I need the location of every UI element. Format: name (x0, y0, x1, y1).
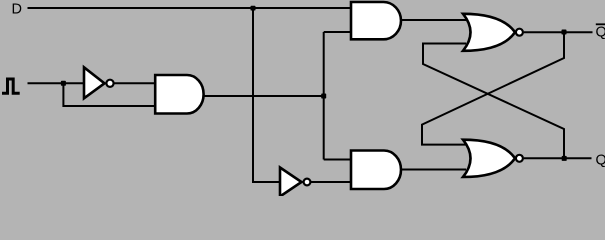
junction Q node (562, 156, 567, 161)
wire bus to AND3 upper input (324, 159, 353, 161)
wire feedback Q to NOR1 lower input (423, 44, 564, 159)
svg-text:Q: Q (596, 25, 605, 41)
inverter U2 (data) (280, 168, 310, 197)
NOR gate NOR1 (top latch) (463, 14, 523, 51)
wire AND1 output to midline (203, 95, 323, 97)
node D label (12, 2, 22, 18)
wire inverter U1 output to AND1 upper input (114, 82, 156, 84)
wire clock branch down to AND1 lower input (63, 83, 156, 106)
junction clock node (61, 81, 66, 86)
wire bus to AND2 lower input (324, 31, 353, 33)
wire NOR2 output to Q (524, 157, 592, 159)
wire D branch down to inverter U2 (253, 8, 282, 182)
inverter U1 (clock) (84, 67, 114, 98)
junction Qbar node (562, 30, 567, 35)
clock pulse input symbol (2, 79, 20, 93)
wire feedback Qbar to NOR2 upper input (422, 32, 564, 144)
wire D input line (28, 7, 353, 9)
junction D branch (251, 6, 256, 11)
AND gate AND3 (reset) (351, 151, 401, 190)
node Qbar label (596, 24, 605, 40)
node Q label (596, 152, 605, 168)
wire middle vertical bus (323, 32, 325, 160)
svg-text:Q: Q (596, 152, 605, 168)
NOR gate NOR2 (bottom latch) (463, 140, 523, 177)
wire AND2 output to NOR1 input (401, 19, 467, 21)
junction AND1 output on vertical bus (321, 94, 326, 99)
wire inverter U2 output to AND3 lower input (311, 181, 354, 183)
AND gate AND2 (set) (351, 2, 401, 39)
svg-text:D: D (12, 2, 22, 18)
wire clock input (28, 82, 85, 84)
wire AND3 output to NOR2 input (401, 169, 467, 171)
wire NOR1 output to Qbar (524, 31, 593, 33)
AND gate AND1 (pulse shaper) (155, 75, 203, 114)
